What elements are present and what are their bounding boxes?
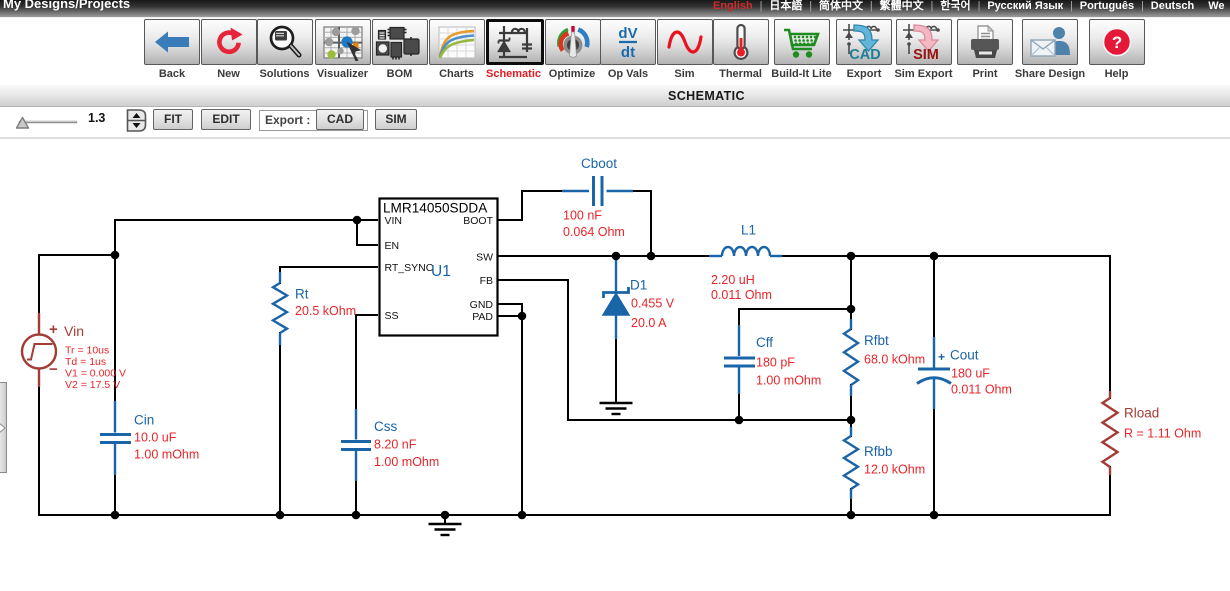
junction rail ground [441, 511, 450, 520]
wire Vin bottom lead to ground rail [38, 386, 40, 516]
svg-text:100 nF: 100 nF [563, 209, 602, 223]
junction Cff bottom / feedback node [735, 416, 744, 425]
wire input node down to Cin [114, 254, 116, 402]
svg-text:10.0 uF: 10.0 uF [134, 431, 177, 445]
Sim Export button [896, 19, 952, 65]
svg-text:Css: Css [374, 419, 397, 434]
wire Cff top to Rfbt top node [739, 308, 852, 310]
capacitor Cff [724, 325, 755, 394]
Visualizer button [315, 19, 371, 65]
junction rail Cout [930, 511, 939, 520]
spinner [126, 109, 147, 132]
junction rail Rfbb [847, 511, 856, 520]
svg-text:20.5 kOhm: 20.5 kOhm [295, 304, 356, 318]
svg-text:D1: D1 [630, 278, 647, 293]
svg-text:1.00 mOhm: 1.00 mOhm [134, 448, 199, 462]
junction rail Css [352, 511, 361, 520]
schematic gray bar [0, 85, 1230, 107]
wire PAD pin stub [497, 315, 522, 317]
wire Rload bottom to ground rail [1109, 466, 1111, 516]
resistor Rload [1109, 391, 1111, 475]
svg-text:20.0 A: 20.0 A [631, 316, 667, 330]
junction GND/PAD node [518, 312, 527, 321]
svg-text:R = 1.11 Ohm: R = 1.11 Ohm [1124, 427, 1201, 441]
wire Rfbb bottom to ground rail [850, 488, 852, 516]
svg-text:GND: GND [470, 299, 494, 311]
svg-text:−: − [49, 361, 58, 378]
junction SW/D1 node [612, 252, 621, 261]
zoom value [88, 111, 105, 125]
capacitor Cin [100, 401, 131, 475]
wire BOOT pin to Cboot left [497, 191, 563, 220]
svg-text:Vin: Vin [64, 323, 84, 339]
wire L1 right to output rail corner [781, 255, 1110, 257]
zoom slider [10, 108, 100, 136]
New button [201, 19, 257, 65]
left panel handle [0, 382, 7, 473]
wire Vin top lead to input node [39, 255, 114, 314]
wire bottom ground rail [38, 514, 1111, 516]
Print button [957, 19, 1013, 65]
svg-text:+: + [938, 350, 945, 364]
wire Cff lower lead to feedback node [738, 393, 740, 420]
EDIT button [201, 109, 251, 130]
svg-text:180 uF: 180 uF [951, 367, 990, 381]
svg-text:Td = 1us: Td = 1us [65, 356, 106, 368]
voltage source Vin [22, 313, 56, 387]
FIT button [153, 109, 193, 130]
wire EN branch [357, 220, 378, 245]
Back button [144, 19, 200, 65]
BOM button [372, 19, 428, 65]
svg-text:Rt: Rt [295, 287, 309, 302]
Op Vals button [600, 19, 656, 65]
junction SW/Cboot node [647, 252, 656, 261]
svg-text:V2 = 17.5 V: V2 = 17.5 V [65, 379, 120, 391]
junction input node [111, 251, 120, 260]
junction Cff top node [847, 305, 856, 314]
wire Cin bottom to ground rail [114, 474, 116, 516]
svg-text:FB: FB [480, 275, 493, 287]
svg-text:EN: EN [385, 240, 400, 252]
wire FB pin to feedback node [497, 280, 852, 420]
Share Design button [1022, 19, 1078, 65]
wire Rfbt bottom to feedback node [850, 384, 852, 421]
Export box [259, 110, 368, 131]
wire output node down to Rfbt [850, 255, 852, 330]
svg-text:V1 = 0.000 V: V1 = 0.000 V [65, 368, 126, 380]
svg-text:Cboot: Cboot [581, 156, 617, 171]
svg-text:2.20 uH: 2.20 uH [711, 273, 755, 287]
op-amp/regulator IC U1 box [380, 199, 498, 336]
svg-text:0.011 Ohm: 0.011 Ohm [951, 383, 1012, 397]
capacitor Cboot [562, 176, 633, 206]
Thermal button [713, 19, 769, 65]
junction Rfbt/Rfbb feedback node [847, 416, 856, 425]
Help button [1089, 19, 1145, 65]
svg-text:RT_SYNC: RT_SYNC [385, 262, 434, 274]
capacitor Css [341, 409, 371, 481]
svg-text:PAD: PAD [472, 311, 493, 323]
svg-text:Tr = 10us: Tr = 10us [65, 345, 109, 357]
svg-text:LMR14050SDDA: LMR14050SDDA [383, 201, 488, 216]
inductor L1 [709, 247, 782, 256]
junction output node at L1 [847, 252, 856, 261]
svg-text:L1: L1 [741, 223, 756, 238]
ground symbol below D1 [600, 403, 633, 414]
wire Cff upper lead [738, 308, 740, 326]
wire SW pin to L1 [497, 255, 710, 257]
wire input node up to VIN pin wire [115, 220, 378, 256]
svg-text:VIN: VIN [385, 215, 403, 227]
resistor Rfbb [850, 427, 852, 499]
wire GND pin stub [497, 304, 522, 317]
Optimize button [545, 19, 601, 65]
wire D1 anode to ground [615, 338, 617, 402]
svg-text:+: + [49, 321, 58, 338]
svg-text:SS: SS [385, 310, 399, 322]
Build-It Lite button [774, 19, 830, 65]
wire GND/PAD column to ground rail [521, 315, 523, 516]
svg-text:12.0 kOhm: 12.0 kOhm [864, 463, 925, 477]
svg-text:Rfbt: Rfbt [864, 333, 889, 348]
wire Cboot right down to SW node [632, 191, 651, 256]
junction rail Cin [111, 511, 120, 520]
wire Rt bottom to ground rail [279, 332, 281, 516]
toolbar [0, 0, 1230, 1]
junction Cout top node [930, 252, 939, 261]
resistor Rfbt [850, 319, 852, 396]
junction rail GND column [518, 511, 527, 520]
wire RT_SYNC pin to Rt [280, 267, 378, 284]
wire right rail down to Rload [1109, 255, 1111, 399]
junction rail Rt [276, 511, 285, 520]
svg-text:BOOT: BOOT [463, 215, 493, 227]
svg-text:8.20 nF: 8.20 nF [374, 438, 417, 452]
resistor Rt [279, 272, 281, 345]
svg-text:1.00 mOhm: 1.00 mOhm [756, 374, 821, 388]
svg-text:180 pF: 180 pF [756, 356, 795, 370]
control row [0, 0, 1230, 1]
wire SS pin to Css [356, 315, 378, 410]
CAD button [316, 109, 364, 130]
top black bar [0, 0, 1230, 18]
svg-text:Cout: Cout [950, 348, 979, 363]
svg-text:Cin: Cin [134, 413, 154, 428]
diode D1 (schottky) [603, 257, 629, 339]
Solutions button [257, 19, 313, 65]
svg-text:Cff: Cff [756, 335, 773, 350]
svg-text:U1: U1 [431, 263, 451, 280]
svg-text:Rload: Rload [1124, 406, 1159, 421]
Charts button [429, 19, 485, 65]
wire output node down to Cout [933, 255, 935, 338]
capacitor Cout (polarized) [917, 337, 951, 409]
wire Cout bottom to ground rail [933, 408, 935, 516]
junction VIN/EN node [353, 216, 362, 225]
svg-text:0.455 V: 0.455 V [631, 297, 675, 311]
svg-text:0.064 Ohm: 0.064 Ohm [563, 225, 625, 239]
svg-text:SW: SW [476, 252, 493, 264]
Schematic button (selected) [486, 19, 544, 65]
Sim button [657, 19, 713, 65]
wire Css bottom to ground rail [355, 480, 357, 516]
svg-text:0.011 Ohm: 0.011 Ohm [711, 288, 772, 302]
svg-text:68.0 kOhm: 68.0 kOhm [864, 353, 925, 367]
svg-text:Rfbb: Rfbb [864, 444, 893, 459]
Export button [836, 19, 892, 65]
ground symbol on bottom rail [429, 515, 462, 535]
SIM button [375, 109, 417, 130]
wire feedback node to Rfbb top [850, 419, 852, 437]
svg-text:1.00 mOhm: 1.00 mOhm [374, 455, 439, 469]
